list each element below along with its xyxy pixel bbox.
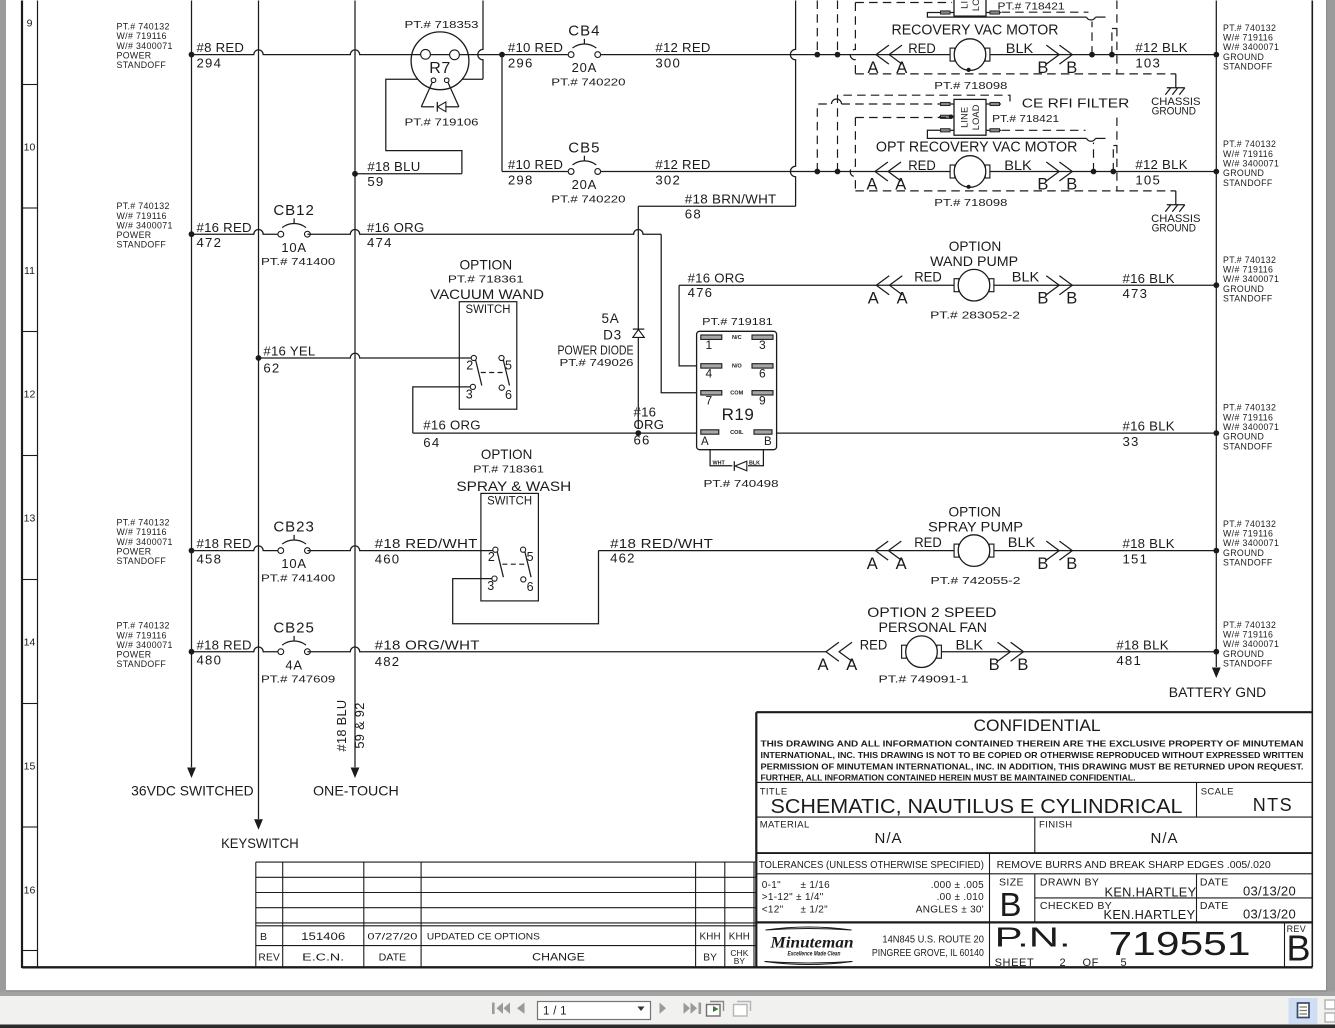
row grid ticks and numbers: [22, 85, 38, 951]
svg-text:#18 BLU: #18 BLU: [334, 700, 349, 752]
wire 474 drop to R19 pin7: [661, 234, 697, 393]
svg-text:POWER: POWER: [117, 650, 152, 660]
svg-text:WHT: WHT: [713, 461, 726, 467]
svg-text:A: A: [868, 289, 879, 307]
svg-text:± 1/16: ± 1/16: [801, 880, 831, 891]
svg-text:POWER: POWER: [117, 230, 152, 240]
svg-text:PT.# 740220: PT.# 740220: [551, 194, 625, 206]
svg-text:BLK: BLK: [1008, 534, 1036, 550]
svg-text:#10 RED: #10 RED: [508, 157, 563, 172]
svg-text:GROUND: GROUND: [1223, 52, 1264, 62]
wire: KEYSWITCH bus: [258, 1, 260, 820]
svg-text:B: B: [1066, 289, 1077, 307]
svg-text:SCHEMATIC, NAUTILUS E CYLINDRI: SCHEMATIC, NAUTILUS E CYLINDRICAL: [771, 795, 1183, 818]
connector B personal fan: [1011, 642, 1024, 661]
svg-text:FURTHER, ALL INFORMATION CONTA: FURTHER, ALL INFORMATION CONTAINED HEREI…: [761, 773, 1136, 783]
svg-text:PT.# 740132: PT.# 740132: [117, 22, 170, 32]
wire 62: [259, 353, 472, 358]
chassis ground row9: [1165, 74, 1185, 95]
motor M opt recovery vac: [950, 156, 990, 189]
shield dashed lines row10: [817, 104, 831, 172]
wire 462 step: [453, 551, 599, 624]
svg-text:ANGLES ± 30': ANGLES ± 30': [916, 905, 984, 916]
svg-text:RECOVERY VAC MOTOR: RECOVERY VAC MOTOR: [892, 22, 1059, 38]
svg-text:4A: 4A: [285, 657, 303, 672]
svg-text:REMOVE BURRS AND BREAK SHARP E: REMOVE BURRS AND BREAK SHARP EDGES .005/…: [997, 860, 1271, 871]
svg-text:COIL: COIL: [730, 430, 744, 436]
wire 64/66 horizontal: [413, 432, 698, 434]
svg-text:B: B: [1286, 928, 1310, 969]
svg-text:B: B: [1037, 289, 1048, 307]
svg-text:294: 294: [197, 55, 223, 70]
svg-text:#18 ORG/WHT: #18 ORG/WHT: [375, 637, 480, 652]
svg-text:ONE-TOUCH: ONE-TOUCH: [313, 784, 399, 799]
svg-text:PT.# 740220: PT.# 740220: [551, 77, 625, 89]
svg-text:151406: 151406: [301, 931, 345, 943]
svg-text:GROUND: GROUND: [1223, 649, 1264, 659]
svg-text:E.C.N.: E.C.N.: [302, 952, 344, 963]
motor M spray pump: [954, 535, 994, 567]
svg-text:300: 300: [655, 55, 681, 70]
minuteman logo: [765, 927, 853, 965]
switch spray & wash: [481, 493, 539, 601]
svg-text:462: 462: [610, 550, 636, 565]
svg-text:62: 62: [263, 361, 280, 376]
svg-text:STANDOFF: STANDOFF: [1223, 178, 1273, 188]
svg-text:N/A: N/A: [874, 830, 902, 847]
svg-text:W/# 3400071: W/# 3400071: [1223, 639, 1279, 649]
wire 294 row9: [192, 50, 412, 55]
svg-text:OPTION: OPTION: [481, 446, 532, 462]
junction ground bus row9: [1213, 52, 1219, 58]
svg-text:16: 16: [24, 884, 36, 896]
svg-text:PT.# 718421: PT.# 718421: [998, 1, 1065, 13]
connector R7: [411, 32, 469, 90]
svg-text:STANDOFF: STANDOFF: [1223, 441, 1273, 451]
svg-text:R19: R19: [722, 405, 755, 424]
page background side bars: [0, 0, 6, 992]
wire 300 row9: [601, 54, 1216, 56]
svg-text:6: 6: [505, 388, 512, 402]
svg-text:N/O: N/O: [732, 364, 743, 370]
wire motor to B and bus: [941, 651, 1216, 653]
svg-text:CONFIDENTIAL: CONFIDENTIAL: [974, 717, 1101, 735]
svg-text:#16 ORG: #16 ORG: [688, 270, 745, 285]
svg-text:1 / 1: 1 / 1: [543, 1006, 567, 1018]
svg-text:STANDOFF: STANDOFF: [117, 60, 167, 70]
svg-text:PERMISSION OF MINUTEMAN INTERN: PERMISSION OF MINUTEMAN INTERNATIONAL, I…: [761, 761, 1304, 771]
svg-text:#18 RED: #18 RED: [197, 637, 252, 652]
svg-text:GROUND: GROUND: [1223, 432, 1264, 442]
shield dashed box row9: [855, 2, 952, 4]
svg-text:W/# 719116: W/# 719116: [117, 211, 167, 221]
svg-text:PT.# 749026: PT.# 749026: [560, 357, 634, 369]
svg-text:PT.# 740132: PT.# 740132: [117, 621, 170, 631]
wire: battery ground bus: [1215, 1, 1217, 668]
motor M wand pump: [954, 269, 994, 301]
svg-text:W/# 719116: W/# 719116: [1223, 412, 1273, 422]
svg-text:460: 460: [375, 552, 401, 567]
svg-text:W/# 3400071: W/# 3400071: [1223, 538, 1279, 548]
svg-text:STANDOFF: STANDOFF: [117, 659, 167, 669]
toolbar snapshot icons: [707, 1002, 724, 1017]
svg-text:W/# 3400071: W/# 3400071: [1223, 274, 1279, 284]
svg-text:B: B: [999, 886, 1021, 923]
junction D3 wire66: [635, 430, 641, 436]
svg-text:B: B: [1066, 555, 1077, 573]
svg-text:13: 13: [24, 512, 36, 524]
circuit breaker CB12: [261, 202, 335, 268]
svg-text:11: 11: [24, 265, 35, 277]
svg-text:.000 ± .005: .000 ± .005: [931, 880, 984, 891]
connector A row10: [875, 162, 888, 181]
wire 482: [307, 647, 826, 652]
circuit breaker CB5: [551, 140, 625, 206]
svg-text:12: 12: [24, 388, 36, 400]
svg-text:PT.# 718098: PT.# 718098: [934, 197, 1007, 209]
svg-text:#16 RED: #16 RED: [197, 220, 252, 235]
svg-text:PERSONAL FAN: PERSONAL FAN: [879, 619, 988, 635]
svg-text:A: A: [896, 555, 907, 573]
svg-text:STANDOFF: STANDOFF: [117, 556, 167, 566]
svg-text:GROUND: GROUND: [1152, 105, 1197, 117]
toolbar page box: [538, 1002, 651, 1020]
svg-text:POWER: POWER: [117, 546, 152, 556]
wire riser 296→298: [501, 55, 503, 172]
power diode D3: [637, 206, 639, 329]
svg-text:#12 RED: #12 RED: [655, 157, 710, 172]
svg-text:PT.# 740132: PT.# 740132: [1223, 519, 1276, 529]
junction bus2 row12: [256, 355, 262, 361]
svg-text:2: 2: [488, 550, 495, 564]
svg-text:GROUND: GROUND: [1223, 284, 1264, 294]
svg-text:PT.# 740132: PT.# 740132: [117, 518, 170, 528]
wire 64 from switch pin3: [413, 387, 471, 433]
svg-text:#12 BLK: #12 BLK: [1135, 40, 1187, 55]
svg-text:PT.# 740132: PT.# 740132: [117, 201, 170, 211]
svg-text:SWITCH: SWITCH: [487, 496, 532, 508]
svg-text:STANDOFF: STANDOFF: [1223, 557, 1273, 567]
chassis ground row10: [1165, 191, 1185, 212]
svg-text:B: B: [764, 436, 772, 448]
svg-text:PT.# 283052-2: PT.# 283052-2: [930, 310, 1020, 322]
svg-text:BLK: BLK: [1012, 269, 1040, 285]
svg-text:PINGREE GROVE, IL 60140: PINGREE GROVE, IL 60140: [872, 948, 984, 959]
svg-text:PT.# 740132: PT.# 740132: [1223, 139, 1276, 149]
svg-text:DATE: DATE: [1200, 877, 1229, 889]
svg-text:OPTION: OPTION: [949, 238, 1001, 254]
svg-text:B: B: [1037, 555, 1048, 573]
svg-text:D3: D3: [603, 328, 622, 343]
circuit breaker CB23: [261, 519, 335, 585]
svg-text:W/# 719116: W/# 719116: [1223, 265, 1273, 275]
svg-text:B: B: [260, 931, 267, 943]
svg-text:TOLERANCES (UNLESS OTHERWISE S: TOLERANCES (UNLESS OTHERWISE SPECIFIED): [759, 860, 984, 871]
wire 480: [192, 647, 281, 652]
svg-text:10: 10: [24, 141, 36, 153]
R19 coil diode: [710, 450, 732, 466]
svg-text:PT.# 749091-1: PT.# 749091-1: [879, 674, 969, 686]
svg-text:10A: 10A: [281, 556, 307, 571]
svg-text:474: 474: [367, 235, 393, 250]
svg-text:482: 482: [375, 654, 401, 669]
switch vacuum wand: [459, 302, 517, 410]
svg-text:OPTION: OPTION: [949, 504, 1001, 520]
svg-text:DATE: DATE: [1200, 900, 1229, 912]
wire 460: [307, 546, 492, 551]
svg-text:7: 7: [706, 394, 713, 408]
wire 68 #18 BRN/WHT: [638, 205, 795, 207]
svg-text:RED: RED: [908, 40, 936, 56]
svg-text:PT.# 740132: PT.# 740132: [1223, 403, 1276, 413]
svg-text:#16 YEL: #16 YEL: [263, 343, 315, 358]
svg-text:6: 6: [759, 367, 766, 381]
circuit breaker CB4: [551, 23, 625, 89]
CE RFI filter row9 (cut at top): [954, 0, 986, 16]
svg-text:Excellence Made Clean: Excellence Made Clean: [788, 951, 841, 958]
svg-text:CB12: CB12: [273, 202, 315, 219]
svg-text:480: 480: [197, 653, 223, 668]
svg-text:14N845 U.S. ROUTE 20: 14N845 U.S. ROUTE 20: [882, 935, 984, 946]
svg-text:151: 151: [1123, 551, 1149, 566]
svg-text:A: A: [867, 555, 878, 573]
svg-text:BLK: BLK: [1004, 157, 1032, 173]
junction bus1 row11: [189, 231, 195, 237]
wire 33: [777, 432, 1217, 434]
svg-text:10A: 10A: [281, 240, 307, 255]
svg-text:W/# 3400071: W/# 3400071: [1223, 42, 1279, 52]
svg-text:GROUND: GROUND: [1152, 222, 1197, 234]
circuit breaker CB25: [261, 620, 335, 686]
svg-text:5A: 5A: [601, 311, 619, 326]
wire 59 one-touch branch: [352, 171, 358, 177]
svg-text:#12 RED: #12 RED: [655, 40, 710, 55]
filter row10 solid line bottom-left pin route: [927, 130, 1086, 138]
svg-text:STANDOFF: STANDOFF: [1223, 61, 1273, 71]
svg-text:P.N.: P.N.: [995, 922, 1071, 953]
svg-text:SCALE: SCALE: [1201, 787, 1234, 798]
svg-text:B: B: [1017, 656, 1028, 674]
svg-text:302: 302: [655, 172, 681, 187]
svg-text:103: 103: [1135, 55, 1161, 70]
junction dots row9 right: [1089, 52, 1095, 58]
title block: [756, 712, 1312, 967]
svg-text:BLK: BLK: [1006, 40, 1034, 56]
junction dots row10: [814, 169, 820, 175]
svg-text:W/# 719116: W/# 719116: [1223, 32, 1273, 42]
svg-text:KEYSWITCH: KEYSWITCH: [221, 836, 299, 851]
svg-text:#18 RED/WHT: #18 RED/WHT: [375, 536, 478, 551]
svg-text:STANDOFF: STANDOFF: [1223, 294, 1273, 304]
svg-text:2: 2: [1060, 957, 1067, 969]
connector B wand pump: [1059, 276, 1072, 295]
svg-text:ORG: ORG: [634, 417, 665, 432]
svg-text:GROUND: GROUND: [1223, 548, 1264, 558]
wire row9 to CB4: [468, 54, 568, 56]
svg-text:FINISH: FINISH: [1039, 820, 1073, 831]
svg-text:W/# 3400071: W/# 3400071: [117, 537, 173, 547]
svg-text:33: 33: [1123, 434, 1140, 449]
svg-text:03/13/20: 03/13/20: [1243, 907, 1296, 922]
svg-text:PT.# 718361: PT.# 718361: [473, 463, 544, 475]
wire 472 row11: [192, 229, 281, 234]
svg-text:9: 9: [27, 17, 33, 29]
svg-text:WAND PUMP: WAND PUMP: [930, 253, 1018, 269]
svg-text:CE RFI FILTER: CE RFI FILTER: [1022, 95, 1130, 110]
svg-text:3: 3: [487, 579, 494, 593]
svg-text:2: 2: [466, 359, 473, 373]
svg-text:LOAD: LOAD: [971, 104, 981, 130]
svg-text:PT.# 740498: PT.# 740498: [704, 478, 779, 490]
svg-text:20A: 20A: [572, 60, 598, 75]
svg-text:LINE: LINE: [960, 0, 970, 9]
svg-text:472: 472: [197, 235, 223, 250]
svg-text:N/A: N/A: [1150, 830, 1178, 847]
svg-text:KEN.HARTLEY: KEN.HARTLEY: [1105, 885, 1197, 900]
svg-text:A: A: [846, 656, 857, 674]
wire 298 row10: [502, 171, 568, 173]
connector A personal fan: [826, 642, 839, 661]
svg-text:#16 ORG: #16 ORG: [367, 220, 424, 235]
svg-text:PT.# 741400: PT.# 741400: [261, 573, 335, 585]
svg-text:458: 458: [197, 551, 223, 566]
svg-text:SPRAY PUMP: SPRAY PUMP: [928, 519, 1023, 535]
svg-text:DATE: DATE: [379, 952, 407, 963]
svg-text:OPTION: OPTION: [460, 257, 513, 273]
svg-text:PT.# 718421: PT.# 718421: [992, 113, 1059, 125]
svg-text:5: 5: [527, 550, 534, 564]
svg-text:W/# 719116: W/# 719116: [117, 31, 167, 41]
svg-text:473: 473: [1123, 286, 1149, 301]
svg-text:#18 BLK: #18 BLK: [1123, 536, 1175, 551]
connector B row9: [1059, 45, 1072, 64]
svg-text:W/# 3400071: W/# 3400071: [117, 220, 173, 230]
svg-text:PT.# 740132: PT.# 740132: [1223, 255, 1276, 265]
svg-text:PT.# 718361: PT.# 718361: [448, 274, 524, 286]
svg-text:W/# 719116: W/# 719116: [117, 630, 167, 640]
wire 476: [679, 284, 954, 286]
svg-text:6: 6: [527, 580, 534, 594]
svg-text:719551: 719551: [1109, 925, 1251, 962]
svg-text:N/C: N/C: [732, 335, 742, 341]
wire 302 row10: [601, 171, 1216, 173]
motor M personal fan: [902, 636, 942, 668]
svg-text:REV: REV: [258, 952, 280, 963]
svg-text:BLK: BLK: [749, 461, 760, 467]
svg-text:W/# 3400071: W/# 3400071: [117, 41, 173, 51]
wire: ONE-TOUCH bus: [354, 1, 356, 768]
svg-text:PT.# 747609: PT.# 747609: [261, 674, 335, 686]
svg-text:VACUUM WAND: VACUUM WAND: [430, 286, 544, 302]
svg-text:POWER: POWER: [117, 50, 152, 60]
junction bus1 row13: [189, 548, 195, 554]
svg-text:DRAWN BY: DRAWN BY: [1040, 877, 1099, 889]
svg-text:INTERNATIONAL, INC. THIS DRAWI: INTERNATIONAL, INC. THIS DRAWING IS NOT …: [761, 750, 1304, 760]
svg-text:STANDOFF: STANDOFF: [1223, 659, 1273, 669]
svg-text:W/# 3400071: W/# 3400071: [117, 640, 173, 650]
svg-text:#12 BLK: #12 BLK: [1135, 157, 1187, 172]
svg-text:CHECKED BY: CHECKED BY: [1040, 900, 1112, 912]
svg-text:9: 9: [759, 394, 766, 408]
svg-text:#18 BLK: #18 BLK: [1116, 637, 1168, 652]
svg-text:RED: RED: [860, 637, 888, 653]
svg-text:A: A: [701, 436, 709, 448]
svg-text:0-1": 0-1": [762, 880, 781, 891]
svg-text:CHANGE: CHANGE: [532, 951, 585, 963]
junction dots row9 shield: [814, 52, 820, 58]
page edge shadow: [1326, 0, 1327, 992]
svg-text:1: 1: [706, 338, 713, 352]
svg-text:PT.# 719181: PT.# 719181: [702, 316, 773, 328]
svg-text:Minuteman: Minuteman: [769, 935, 853, 952]
pdf viewer toolbar: [0, 992, 1335, 997]
svg-text:64: 64: [423, 435, 440, 450]
svg-text:59: 59: [367, 174, 384, 189]
junction node 296: [499, 52, 505, 58]
svg-text:GROUND: GROUND: [1223, 168, 1264, 178]
svg-text:A: A: [817, 656, 828, 674]
svg-text:SPRAY & WASH: SPRAY & WASH: [456, 478, 571, 494]
connector B spray pump: [1059, 541, 1072, 560]
svg-text:BATTERY GND: BATTERY GND: [1169, 685, 1266, 700]
svg-text:THIS DRAWING AND ALL INFORMATI: THIS DRAWING AND ALL INFORMATION CONTAIN…: [761, 739, 1304, 749]
svg-text:SHEET: SHEET: [995, 957, 1035, 969]
svg-text:CB5: CB5: [568, 140, 600, 157]
svg-text:OF: OF: [1083, 957, 1099, 969]
motor M recovery vac: [950, 39, 990, 72]
svg-text:03/13/20: 03/13/20: [1243, 884, 1296, 899]
svg-text:W/# 719116: W/# 719116: [1223, 149, 1273, 159]
svg-text:PT.# 718353: PT.# 718353: [405, 19, 479, 31]
svg-text:#16 BLK: #16 BLK: [1123, 271, 1175, 286]
svg-text:#18 BRN/WHT: #18 BRN/WHT: [685, 192, 777, 207]
svg-text:W/# 719116: W/# 719116: [1223, 528, 1273, 538]
svg-text:MATERIAL: MATERIAL: [760, 820, 810, 831]
svg-text:476: 476: [688, 285, 714, 300]
dashed risers row9 left: [816, 1, 818, 55]
svg-text:CB4: CB4: [568, 23, 600, 40]
svg-text:KHH: KHH: [700, 932, 721, 943]
svg-text:#18 RED: #18 RED: [197, 536, 252, 551]
svg-text:105: 105: [1135, 172, 1161, 187]
svg-text:.00 ± .010: .00 ± .010: [937, 892, 985, 903]
svg-text:KEN.HARTLEY: KEN.HARTLEY: [1104, 907, 1196, 922]
wire: 36VDC SWITCHED bus: [191, 1, 193, 768]
svg-text:5: 5: [505, 359, 512, 373]
svg-text:PT.# 742055-2: PT.# 742055-2: [931, 575, 1021, 587]
svg-text:3: 3: [759, 338, 766, 352]
svg-text:07/27/20: 07/27/20: [367, 932, 417, 943]
toolbar page view icons right: [1289, 998, 1318, 1024]
svg-text:296: 296: [508, 55, 534, 70]
wire motor to B: [994, 284, 1216, 286]
svg-text:PT.# 718098: PT.# 718098: [934, 80, 1007, 92]
svg-text:14: 14: [24, 636, 36, 648]
svg-text:W/# 3400071: W/# 3400071: [1223, 422, 1279, 432]
connector A spray pump: [875, 541, 888, 560]
wire R7 right pin riser: [462, 78, 483, 80]
svg-text:CB23: CB23: [273, 519, 315, 536]
svg-text:>1-12" ± 1/4": >1-12" ± 1/4": [762, 892, 824, 903]
svg-text:#10 RED: #10 RED: [508, 40, 563, 55]
svg-text:36VDC SWITCHED: 36VDC SWITCHED: [131, 784, 254, 799]
svg-text:#8 RED: #8 RED: [197, 40, 245, 55]
revision history table: [256, 862, 757, 967]
svg-text:PT.# 740132: PT.# 740132: [1223, 620, 1276, 630]
svg-text:A: A: [897, 289, 908, 307]
svg-text:COM: COM: [730, 391, 743, 397]
svg-text:RED: RED: [914, 534, 942, 550]
